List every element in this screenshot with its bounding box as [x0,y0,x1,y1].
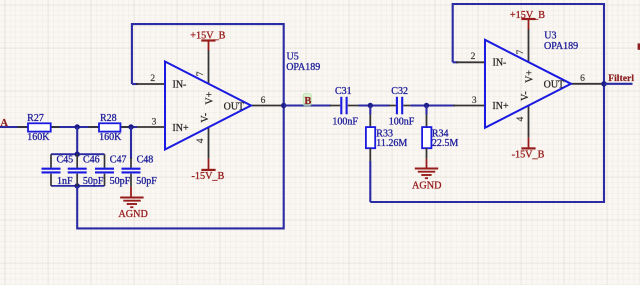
wire: node B to C31 [284,104,331,106]
svg-text:A: A [0,118,8,129]
capacitor C31 100nF [330,86,359,128]
svg-text:+15V_B: +15V_B [190,30,225,41]
wire: feedback top loop U3 [453,4,604,84]
svg-text:+15V_B: +15V_B [510,10,545,21]
svg-text:AGND: AGND [118,209,147,220]
capacitor C47 50pF [95,154,131,187]
svg-text:Filterl: Filterl [608,73,634,84]
svg-text:2: 2 [150,74,155,84]
svg-text:-15V_B: -15V_B [512,149,545,160]
power -15V_B (U3) [512,137,545,160]
junction node2 (after R28 / C48 tap) [128,124,133,129]
wire: output to FilterI [604,83,633,85]
svg-text:160K: 160K [27,132,50,143]
node A net label [0,118,8,129]
svg-text:R28: R28 [100,113,117,124]
svg-text:IN-: IN- [493,58,507,69]
svg-text:R27: R27 [27,113,44,124]
op-amp U5 OPA189 [136,50,320,159]
wire: C31 to C32 [359,104,391,106]
wire: node2 down to C48 [130,127,132,159]
wire: stub at U3 pin 2 [453,61,458,63]
node B net label [303,94,311,107]
wire: cap bottom rail [51,185,105,187]
wire: cap top rail [51,153,105,155]
svg-text:50pF: 50pF [83,176,104,187]
op-amp U3 OPA189 [453,29,604,138]
net label fragment at top right edge [638,43,640,49]
svg-text:4: 4 [516,117,526,122]
svg-text:22.5M: 22.5M [432,138,459,149]
svg-text:11.26M: 11.26M [376,138,407,149]
wire: down to R34 [425,106,427,115]
junction bottom rail [75,183,80,188]
svg-text:IN+: IN+ [492,101,509,112]
svg-text:OUT: OUT [544,80,565,91]
resistor R33 11.26M [366,115,408,162]
ground AGND (stage 1) [118,187,147,221]
ground AGND (stage 2) [412,159,441,192]
svg-text:V-: V- [520,91,531,101]
svg-text:IN+: IN+ [172,123,189,134]
power -15V_B (U5) [192,159,225,182]
resistor R28 160K [89,113,130,143]
svg-text:C32: C32 [391,86,408,97]
svg-text:C45: C45 [57,155,74,166]
svg-text:100nF: 100nF [389,116,415,127]
wire: C32 to U3 pin3 [410,104,455,106]
capacitor C46 50pF [68,154,104,187]
capacitor C45 1nF [42,154,74,187]
svg-text:OPA189: OPA189 [286,62,320,73]
wire: feedback top loop to IN- [132,24,284,105]
svg-text:C47: C47 [110,155,127,166]
node FilterI net label [608,73,634,84]
junction U3 output node [601,81,606,86]
wire: feedback bottom rail U3 [370,84,604,202]
svg-text:U3: U3 [544,30,556,41]
svg-text:IN-: IN- [173,79,187,90]
svg-text:100nF: 100nF [332,116,358,127]
svg-text:160K: 160K [99,132,122,143]
svg-text:50pF: 50pF [136,176,157,187]
wire: Sallen-Key feedback bottom loop [77,106,284,229]
svg-text:C31: C31 [335,86,352,97]
svg-text:OPA189: OPA189 [544,41,578,52]
capacitor C48 50pF [122,155,158,188]
power +15V_B (U5) [190,30,225,50]
svg-text:V-: V- [200,113,211,123]
svg-text:C46: C46 [83,155,100,166]
wire: input A line [0,126,137,128]
wire: R33 down to feedback rail [369,161,371,202]
svg-text:-15V_B: -15V_B [192,171,225,182]
wire: stub at pin 2 [132,83,138,85]
svg-text:1nF: 1nF [57,176,73,187]
junction node1 (R27/R28) [75,124,80,129]
svg-text:2: 2 [471,52,476,62]
junction top rail [75,152,80,157]
junction node B [281,103,286,108]
svg-text:6: 6 [580,74,585,84]
wire: node1 down to cap rail [76,127,78,154]
svg-text:4: 4 [196,138,206,143]
svg-text:7: 7 [196,71,206,76]
svg-text:V+: V+ [204,91,215,104]
capacitor C32 100nF [389,86,415,128]
junction node C31/C32 [368,103,373,108]
svg-text:C48: C48 [137,155,154,166]
wire: down to R33 [369,106,371,115]
svg-text:50pF: 50pF [110,176,131,187]
svg-text:OUT: OUT [224,101,245,112]
svg-text:AGND: AGND [412,180,441,191]
svg-text:V+: V+ [524,70,535,83]
svg-text:B: B [304,96,311,107]
resistor R27 160K [18,113,60,143]
junction node C32/R34 [424,103,429,108]
power +15V_B (U3) [510,10,545,29]
svg-text:6: 6 [261,96,266,106]
svg-text:7: 7 [516,50,526,55]
svg-text:3: 3 [152,117,157,127]
svg-text:U5: U5 [287,51,299,62]
svg-text:3: 3 [472,96,477,106]
resistor R34 22.5M [422,115,458,159]
